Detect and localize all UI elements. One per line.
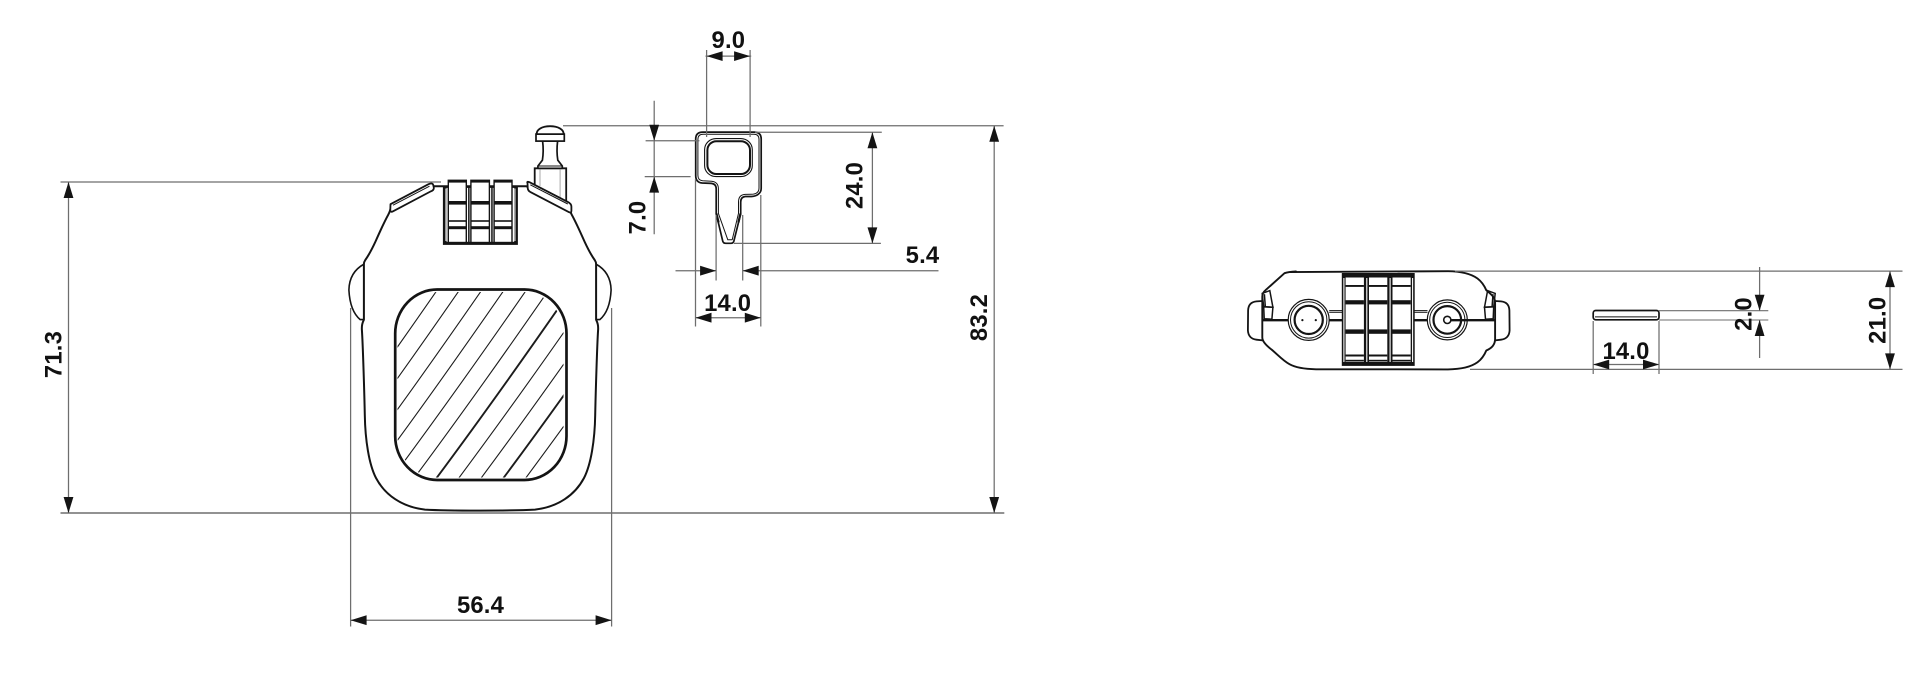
top view: lock body outline — [1262, 271, 1495, 369]
dim 21.0: arrows — [1885, 271, 1895, 287]
dim 24.0: top tick at key top — [755, 131, 882, 133]
front view: three combination wheels — [448, 180, 512, 243]
dim 5.4: left extension — [715, 215, 717, 281]
svg-text:9.0: 9.0 — [712, 27, 746, 54]
top view: right cable hole — [1427, 300, 1467, 340]
key: taper accent right — [738, 214, 740, 223]
front view: right side ear bump — [596, 264, 611, 320]
svg-text:7.0: 7.0 — [625, 201, 652, 235]
dim 24.0: bottom tick at key tip — [734, 242, 881, 244]
key: taper accent left — [716, 214, 718, 223]
top view: dial block slits — [1344, 278, 1413, 362]
dim 14.0 key: right extension — [760, 195, 762, 327]
dim 24.0: dimension line — [871, 132, 873, 243]
dim 14.0 clip: dimension line — [1593, 364, 1659, 366]
top view: cable center lines — [1262, 311, 1495, 321]
svg-text:21.0: 21.0 — [1865, 297, 1892, 344]
reference line from plunger top — [563, 125, 1004, 127]
dim 2.0: upper dimension line — [1759, 267, 1761, 311]
top view: right wing panel (edge-on) — [1485, 291, 1496, 320]
dim 83.2: dimension line — [993, 126, 995, 513]
svg-text:24.0: 24.0 — [841, 162, 868, 209]
dim 71.3: arrows — [64, 182, 74, 198]
front view: lock body outline — [362, 186, 598, 510]
dim 2.0: top extension — [1659, 310, 1768, 312]
svg-text:14.0: 14.0 — [1602, 338, 1649, 365]
key: opening hole — [707, 141, 750, 174]
dim 14.0 clip: left extension — [1592, 321, 1594, 374]
top view: left end cap bump — [1248, 301, 1263, 340]
dim 14.0 key: dimension line — [696, 317, 761, 319]
dim 21.0: bottom reference line — [1470, 368, 1903, 370]
dim 56.4: right extension — [611, 308, 613, 627]
dim 5.4: right lead line — [743, 270, 939, 272]
top view: clip slat part — [1593, 311, 1659, 320]
dim 2.0: lower dimension line — [1759, 320, 1761, 358]
key: inner chamfer outline — [698, 134, 759, 240]
top view: clip slat fold line — [1595, 316, 1657, 318]
dim 24.0: arrows — [868, 132, 878, 148]
dim 56.4: arrows — [351, 615, 367, 625]
front view: hatch lines — [270, 287, 729, 492]
dim 7.0: top tick — [646, 140, 700, 142]
dim 7.0: arrows — [649, 125, 659, 141]
front view: right cable-guide wing — [527, 182, 571, 213]
dim 71.3: dimension line — [68, 182, 70, 513]
key: opening chamfer — [705, 139, 753, 177]
dim 14.0 key: left extension — [695, 179, 697, 327]
svg-text:2.0: 2.0 — [1731, 297, 1758, 331]
dim 14.0 clip: right extension — [1658, 321, 1660, 374]
dim 5.4: left lead line — [676, 270, 717, 272]
top view: left cable hole — [1288, 299, 1329, 340]
dim 9.0: dimension line — [706, 55, 752, 57]
dim 2.0: arrows — [1755, 295, 1765, 311]
baseline reference (bottom of lock) — [61, 512, 1005, 514]
dim 21.0: top reference line — [1455, 270, 1903, 272]
dim 14.0 clip: arrows — [1593, 360, 1609, 370]
key: cable-end profile outer outline — [696, 132, 762, 243]
front view: dial housing frame posts — [444, 187, 517, 244]
front view: combination dial housing — [444, 187, 517, 244]
top view: left wing panel (edge-on) — [1262, 291, 1273, 320]
front view: housing slit right — [514, 189, 516, 242]
front view: left side ear bump — [349, 264, 364, 320]
dim 2.0: bottom extension — [1659, 319, 1768, 321]
dim 5.4: arrows — [700, 266, 716, 276]
top view: right end cap bump — [1495, 301, 1510, 340]
dim 56.4: left extension — [350, 308, 352, 627]
front view: housing slit left — [445, 189, 447, 242]
svg-text:71.3: 71.3 — [41, 331, 68, 378]
svg-text:56.4: 56.4 — [457, 592, 505, 619]
dim 9.0: right extension — [749, 50, 751, 137]
dim 5.4: right extension — [742, 215, 744, 281]
front view: plunger pin on top — [535, 126, 567, 209]
top view: dial block wheel columns — [1346, 278, 1411, 363]
dim 71.3: top reference line — [61, 181, 442, 183]
dim 7.0: bottom tick — [645, 176, 691, 178]
dim 9.0: arrows — [707, 51, 723, 61]
dim 83.2: arrows — [989, 126, 999, 142]
top view: dial block frame — [1342, 273, 1415, 366]
dim 14.0 key: arrows — [696, 313, 712, 323]
dim 7.0: dimension line — [653, 101, 655, 235]
svg-text:14.0: 14.0 — [704, 290, 751, 317]
dim 9.0: left extension — [706, 50, 708, 137]
dim 56.4: dimension line — [351, 619, 612, 621]
dim 21.0: dimension line — [1889, 271, 1891, 369]
front view: left cable-guide wing — [390, 183, 434, 211]
svg-text:5.4: 5.4 — [906, 242, 940, 269]
svg-text:83.2: 83.2 — [966, 294, 993, 341]
